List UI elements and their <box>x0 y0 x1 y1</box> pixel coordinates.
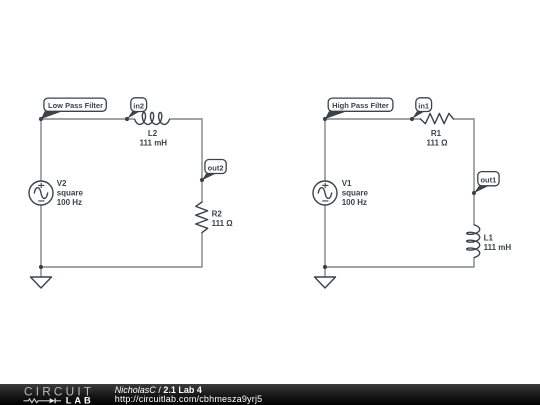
svg-text:LAB: LAB <box>66 396 94 405</box>
svg-text:V1: V1 <box>342 179 352 188</box>
svg-text:R1: R1 <box>431 129 442 138</box>
svg-text:R2: R2 <box>212 210 223 219</box>
svg-text:111 mH: 111 mH <box>140 139 168 148</box>
svg-text:Low Pass Filter: Low Pass Filter <box>48 101 103 110</box>
svg-text:100 Hz: 100 Hz <box>342 198 367 207</box>
svg-text:in1: in1 <box>418 101 429 110</box>
svg-text:111 mH: 111 mH <box>484 243 512 252</box>
svg-text:out2: out2 <box>208 163 224 172</box>
svg-text:out1: out1 <box>480 176 496 185</box>
svg-text:square: square <box>57 189 84 198</box>
svg-text:L1: L1 <box>484 234 494 243</box>
svg-text:High Pass Filter: High Pass Filter <box>332 101 389 110</box>
svg-text:100 Hz: 100 Hz <box>57 198 82 207</box>
svg-text:in2: in2 <box>133 101 144 110</box>
svg-text:L2: L2 <box>148 129 158 138</box>
svg-text:V2: V2 <box>57 179 67 188</box>
svg-text:111 Ω: 111 Ω <box>212 219 234 228</box>
svg-text:111 Ω: 111 Ω <box>426 138 448 147</box>
svg-text:square: square <box>342 189 369 198</box>
